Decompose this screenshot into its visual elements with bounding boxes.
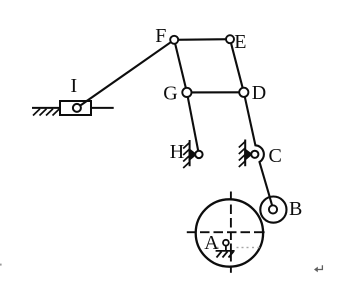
svg-text:A: A (204, 232, 219, 254)
svg-text:G: G (163, 83, 177, 105)
svg-text:C: C (269, 145, 282, 167)
svg-text:I: I (71, 75, 78, 97)
svg-text:E: E (234, 31, 246, 53)
svg-text:D: D (252, 82, 266, 104)
svg-text:B: B (289, 198, 302, 220)
svg-text:F: F (155, 25, 166, 47)
svg-text:H: H (170, 141, 184, 163)
